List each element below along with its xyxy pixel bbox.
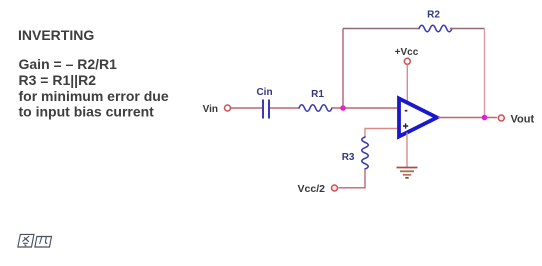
junction node A — [340, 105, 346, 111]
terminal Vcc/2 — [332, 185, 338, 191]
svg-text:R1: R1 — [311, 89, 324, 100]
op-amp U1 — [399, 99, 437, 137]
label Gain equation — [19, 56, 118, 72]
resistor R3 — [362, 137, 369, 169]
resistor R1 — [299, 105, 332, 112]
terminal Vin — [225, 105, 231, 111]
wire Vin to Cin — [231, 107, 262, 109]
wire Cin to R1 — [270, 107, 299, 109]
wire feedback top right — [450, 28, 485, 30]
caption figure four (Chinese, drawn) — [18, 234, 52, 247]
svg-text:+Vcc: +Vcc — [395, 47, 419, 58]
resistor R2 — [419, 25, 452, 32]
svg-text:R3: R3 — [342, 152, 355, 163]
resistor R2 label — [427, 10, 440, 21]
wire R3 to Vcc/2 — [339, 169, 366, 188]
svg-text:for minimum error due: for minimum error due — [19, 88, 169, 104]
label note line 1 — [19, 88, 169, 104]
wire feedback left vertical — [342, 29, 344, 109]
wire +Vcc to op-amp — [406, 65, 408, 104]
node +Vcc label — [395, 47, 419, 58]
svg-text:R3 = R1||R2: R3 = R1||R2 — [19, 72, 97, 88]
title INVERTING — [18, 27, 94, 43]
wire R1 to op-amp inverting input — [332, 107, 397, 109]
svg-text:Vin: Vin — [203, 104, 218, 115]
wire feedback top left — [343, 28, 419, 30]
wire op-amp to ground — [406, 133, 408, 168]
wire feedback right vertical — [484, 29, 486, 118]
svg-text:INVERTING: INVERTING — [18, 27, 94, 43]
svg-text:Vout: Vout — [511, 114, 535, 126]
resistor R1 label — [311, 89, 324, 100]
ground — [397, 168, 418, 178]
node Vout label — [511, 114, 535, 126]
label note line 2 — [19, 104, 155, 120]
wire op-amp noninverting input — [365, 129, 397, 138]
capacitor Cin — [263, 100, 269, 119]
node Vcc/2 label — [298, 183, 326, 195]
terminal Vout — [498, 115, 504, 121]
resistor R3 label — [342, 152, 355, 163]
svg-text:to input bias current: to input bias current — [19, 104, 155, 120]
junction node B — [482, 115, 488, 121]
node Vin label — [203, 104, 218, 115]
terminal +Vcc — [404, 58, 410, 64]
label R3 equation — [19, 72, 97, 88]
svg-text:Vcc/2: Vcc/2 — [298, 183, 326, 195]
capacitor Cin label — [256, 87, 272, 98]
svg-text:Cin: Cin — [256, 87, 272, 98]
svg-text:R2: R2 — [427, 10, 440, 21]
svg-text:Gain = – R2/R1: Gain = – R2/R1 — [19, 56, 118, 72]
wire op-amp output — [438, 117, 497, 119]
